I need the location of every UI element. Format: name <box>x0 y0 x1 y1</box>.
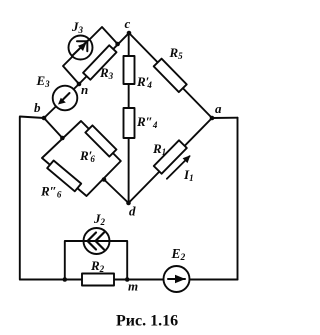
resistor R''4 <box>124 108 135 138</box>
svg-text:b: b <box>34 100 41 115</box>
wire J3 bent branch n-L-P-J <box>63 27 118 84</box>
wire junction to d <box>104 180 129 204</box>
svg-text:E3: E3 <box>36 73 51 89</box>
wire c to d (R4 branch) <box>128 33 130 203</box>
node c <box>127 31 132 36</box>
svg-text:R3: R3 <box>99 65 114 81</box>
current arrow I1 <box>167 155 191 179</box>
svg-text:J3: J3 <box>71 19 84 35</box>
wire J2 loop right riser <box>109 241 127 280</box>
svg-text:R″4: R″4 <box>136 114 158 130</box>
node junction R6-d <box>102 177 107 182</box>
svg-text:d: d <box>129 204 136 219</box>
svg-text:R5: R5 <box>169 45 184 61</box>
voltage source E2 <box>164 266 190 292</box>
svg-text:R2: R2 <box>90 258 105 274</box>
svg-text:R′4: R′4 <box>136 74 152 90</box>
svg-text:R1: R1 <box>152 141 166 157</box>
node junction J3/R3 <box>115 42 120 47</box>
wire b to n (E3 branch) <box>44 84 79 118</box>
wire right rail <box>237 118 239 280</box>
resistor R''6 <box>47 160 81 191</box>
svg-text:c: c <box>125 16 131 31</box>
resistor R3 <box>83 45 116 79</box>
node d <box>126 201 131 206</box>
current source J2 <box>84 228 110 254</box>
svg-text:R′6: R′6 <box>79 148 95 164</box>
wire n to c (R3 branch) <box>79 33 129 84</box>
svg-text:R″6: R″6 <box>40 184 62 200</box>
wire bottom rail <box>20 279 238 281</box>
wire J2 loop left riser <box>65 241 84 280</box>
wire c to a (R5 branch) <box>129 33 212 118</box>
resistor R'6 <box>85 125 116 156</box>
svg-text:E2: E2 <box>171 246 186 263</box>
wire d to a (R1 branch) <box>129 118 213 203</box>
resistor R'4 <box>124 56 135 84</box>
svg-text:Рис. 1.16: Рис. 1.16 <box>116 313 178 330</box>
current source J3 <box>69 36 93 60</box>
node junction J2 left <box>63 277 68 282</box>
resistor R1 <box>154 140 187 173</box>
wire R6 parallelogram outline <box>42 121 121 196</box>
resistor R2 <box>82 274 114 286</box>
node junction b-R6 <box>60 136 65 141</box>
svg-text:J2: J2 <box>93 211 106 227</box>
node b <box>42 116 47 121</box>
svg-text:m: m <box>128 279 138 294</box>
node n <box>77 82 82 87</box>
resistor R5 <box>154 59 187 92</box>
node a <box>210 116 215 121</box>
svg-text:n: n <box>81 82 88 97</box>
wire b to left rail <box>20 117 44 280</box>
node m <box>125 277 130 282</box>
svg-text:I1: I1 <box>183 167 194 183</box>
wire a to right rail <box>212 117 238 119</box>
svg-text:a: a <box>215 101 222 116</box>
voltage source E3 <box>53 86 78 111</box>
wire b to R6 parallelogram <box>44 118 62 138</box>
